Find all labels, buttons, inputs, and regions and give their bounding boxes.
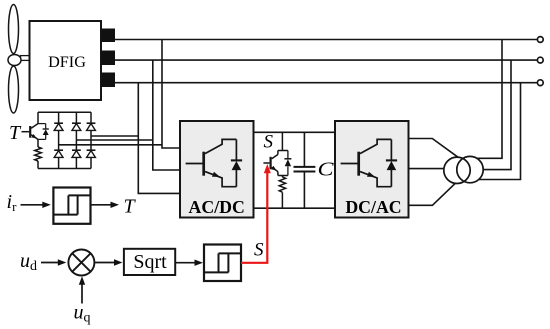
svg-text:AC/DC: AC/DC bbox=[189, 197, 245, 217]
svg-text:Sqrt: Sqrt bbox=[133, 251, 167, 273]
svg-text:DFIG: DFIG bbox=[48, 53, 86, 71]
svg-text:C: C bbox=[318, 159, 335, 181]
svg-text:S: S bbox=[254, 240, 264, 261]
svg-text:T: T bbox=[124, 195, 137, 217]
svg-text:DC/AC: DC/AC bbox=[345, 197, 401, 217]
svg-text:T: T bbox=[9, 122, 22, 144]
svg-text:S: S bbox=[264, 132, 274, 153]
